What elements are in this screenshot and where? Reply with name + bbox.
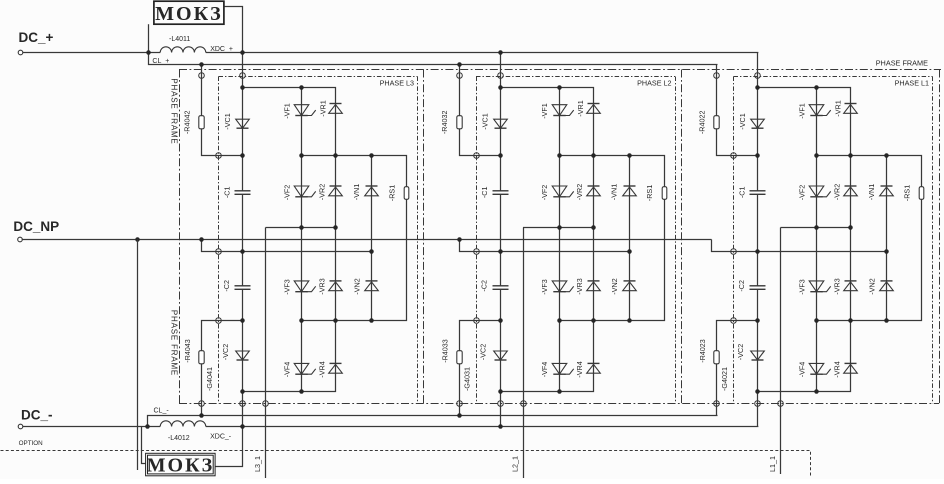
svg-text:-VC2: -VC2 [736, 344, 745, 360]
junction row392 VC2 L1 [755, 389, 760, 394]
resistor R4042 [199, 116, 204, 129]
frame crossing VC2 L3 [240, 401, 246, 407]
svg-text:-VF1: -VF1 [540, 103, 549, 119]
svg-text:PHASE FRAME: PHASE FRAME [876, 59, 928, 68]
junction row392 VF L1 [814, 389, 819, 394]
svg-text:-C2: -C2 [737, 280, 746, 292]
thyristor VF1 L1 [809, 105, 831, 116]
inductor L4012 [160, 421, 206, 442]
junction row88 VF L3 [299, 85, 304, 90]
terminal DC_- [18, 424, 23, 429]
diode VN2 L1 [880, 281, 894, 291]
junction XDC_- / VC2 L1 [756, 425, 758, 427]
junction row156 VN L1 [884, 153, 889, 158]
junction output VF L1 [814, 225, 819, 230]
svg-text:PHASE L3: PHASE L3 [380, 79, 414, 88]
wire VN column L2 [629, 156, 631, 321]
junction XDC_- / VC2 L2 [498, 424, 503, 429]
thyristor VF4 L1 [809, 363, 831, 374]
wire R-bottom column L3 [202, 321, 243, 416]
junction row156 VR L1 [848, 153, 853, 158]
frame crossing VC1 L2 [498, 73, 504, 79]
junction NP VN L2 [627, 249, 632, 254]
diode VC1 L1 [751, 119, 765, 128]
svg-text:-C2: -C2 [480, 280, 489, 292]
junction row320 C2 L3 [240, 318, 245, 323]
frame crossing VC2 L1 [755, 401, 761, 407]
junction NP VN L1 [884, 249, 889, 254]
wire VN column L1 [886, 156, 888, 321]
frame crossing row320 L1 [731, 318, 737, 324]
wire NP jog L2 [460, 240, 630, 252]
junction row320 VF L2 [557, 318, 562, 323]
diode VN2 L2 [623, 281, 637, 291]
junction row156 VN L3 [369, 153, 374, 158]
diode VN1 L1 [880, 186, 894, 196]
diode VC2 L1 [751, 351, 765, 360]
thyristor VF3 L1 [809, 281, 831, 292]
svg-text:-R4023: -R4023 [698, 339, 707, 363]
svg-text:-VC1: -VC1 [223, 113, 232, 129]
frame crossing R4023 [714, 401, 720, 407]
diode VR1 L3 [329, 104, 343, 114]
junction row156 VF L1 [814, 153, 819, 158]
svg-text:-VR3: -VR3 [575, 278, 584, 294]
frame crossing row156 L3 [216, 153, 222, 159]
svg-text:-VF1: -VF1 [798, 103, 807, 119]
svg-text:PHASE FRAME: PHASE FRAME [170, 310, 179, 376]
junction DC_- / CL_- [145, 424, 150, 429]
svg-text:-VC1: -VC1 [481, 113, 490, 129]
svg-text:-R4022: -R4022 [698, 111, 707, 135]
wire R-top column L2 [460, 65, 501, 156]
junction DC_NP jog L3 [199, 237, 204, 242]
wire output row L1 [781, 227, 851, 229]
svg-text:-VF2: -VF2 [798, 185, 807, 201]
thyristor VF3 L3 [294, 281, 316, 292]
junction NP C L1 [755, 249, 760, 254]
phase box L3 (G4041) [219, 77, 418, 404]
junction row156 C1 L3 [240, 153, 245, 158]
frame crossing output L3 [263, 401, 269, 407]
svg-text:-L4012: -L4012 [168, 435, 190, 442]
wire VF column L3 [301, 88, 303, 392]
junction row88 VF L2 [557, 85, 562, 90]
MOK3 box top [154, 1, 224, 25]
frame crossing NP L2 [474, 249, 480, 255]
junction CL_- / R4033 [457, 413, 462, 418]
wire output column L3_1 [265, 228, 267, 479]
capacitor C1 L2 [493, 191, 509, 195]
svg-text:-VC2: -VC2 [221, 344, 230, 360]
junction DC_+ / CL_+ / MOK3 [146, 50, 151, 55]
svg-text:-VF1: -VF1 [283, 103, 292, 119]
svg-text:-VN2: -VN2 [353, 278, 362, 294]
phase frame border [179, 70, 941, 404]
frame crossing NP L3 [216, 249, 222, 255]
diode VR3 L3 [329, 281, 343, 291]
junction XDC_- / VC2 L3 [240, 424, 245, 429]
diode VC2 L3 [236, 351, 250, 360]
wire DC_+ terminal to inductor [23, 52, 161, 54]
wire DC_- terminal to inductor [23, 426, 161, 428]
junction row392 VC2 L3 [240, 389, 245, 394]
thyristor VF1 L2 [552, 105, 574, 116]
junction XDC_+ / VC1 L3 [240, 50, 245, 55]
junction NP C L2 [498, 249, 503, 254]
wire VC column L1 [757, 53, 759, 427]
svg-text:-VR1: -VR1 [834, 100, 843, 116]
thyristor VF1 L3 [294, 105, 316, 116]
wire MOK3 bottom right lead [216, 427, 243, 467]
svg-text:-C2: -C2 [222, 280, 231, 292]
junction DC_NP jog L2 [457, 237, 462, 242]
junction row88 VC L1 [755, 85, 760, 90]
svg-text:-VF3: -VF3 [798, 279, 807, 295]
capacitor C2 L3 [235, 286, 251, 290]
wire DC_NP drop [137, 240, 139, 471]
svg-text:-VN2: -VN2 [610, 278, 619, 294]
wire R-top column L1 [717, 65, 758, 156]
junction output VR L3 [333, 225, 338, 230]
resistor R4032 [457, 116, 462, 129]
diode VR3 L2 [587, 281, 601, 291]
junction row156 VR L3 [333, 153, 338, 158]
frame crossing VC1 L3 [240, 73, 246, 79]
junction row320 VF L3 [299, 318, 304, 323]
resistor R4043 [199, 351, 204, 364]
MOK3 box bottom [146, 453, 216, 476]
frame crossing R4042 [199, 73, 205, 79]
capacitor C2 L1 [750, 286, 766, 290]
svg-text:МОКЗ: МОКЗ [147, 454, 215, 476]
junction row156 C1 L1 [755, 153, 760, 158]
resistor RS1 L3 [404, 187, 409, 200]
diode VC2 L2 [494, 351, 508, 360]
thyristor VF4 L2 [552, 363, 574, 374]
phase box L2 (G4031) [476, 77, 676, 404]
svg-text:PHASE FRAME: PHASE FRAME [170, 78, 179, 144]
junction row392 VF L3 [299, 389, 304, 394]
svg-text:-RS1: -RS1 [903, 185, 912, 201]
diode VR1 L2 [587, 104, 601, 114]
wire mid row upper L2 [560, 156, 665, 321]
junction row156 C1 L2 [498, 153, 503, 158]
junction CL_+ / R4032 [457, 62, 462, 67]
svg-text:-G4031: -G4031 [462, 367, 471, 391]
svg-text:-VF4: -VF4 [798, 362, 807, 378]
wire R-bottom column L2 [460, 321, 501, 416]
diode VR2 L3 [329, 186, 343, 196]
svg-text:L2_1: L2_1 [511, 456, 520, 472]
wire NP jog L3 [202, 240, 372, 252]
svg-text:-VN1: -VN1 [352, 184, 361, 200]
junction row156 VN L2 [627, 153, 632, 158]
frame crossing NP L1 [731, 249, 737, 255]
svg-text:-VR1: -VR1 [576, 100, 585, 116]
thyristor VF4 L3 [294, 363, 316, 374]
frame crossing row320 L3 [216, 318, 222, 324]
svg-text:-C1: -C1 [480, 187, 489, 199]
svg-text:-C1: -C1 [738, 187, 747, 199]
svg-text:-L4011: -L4011 [169, 36, 190, 43]
wire DC_NP rail [22, 239, 712, 241]
svg-text:CL_+: CL_+ [152, 58, 169, 65]
junction DC_NP drop [135, 237, 140, 242]
svg-text:DC_-: DC_- [21, 408, 53, 423]
diode VR2 L2 [587, 186, 601, 196]
svg-text:-G4021: -G4021 [720, 367, 729, 391]
junction row392 VF L2 [557, 389, 562, 394]
svg-text:-VF3: -VF3 [540, 279, 549, 295]
wire R-bottom column L1 [717, 321, 758, 416]
wire VF column L1 [816, 88, 818, 392]
junction NP VN L3 [369, 249, 374, 254]
thyristor VF3 L2 [552, 281, 574, 292]
wire VN column L3 [371, 156, 373, 321]
resistor R4022 [714, 116, 719, 129]
wire mid row upper L3 [302, 156, 407, 321]
junction row88 VC L2 [498, 85, 503, 90]
svg-text:-VF2: -VF2 [540, 185, 549, 201]
junction row320 VN L2 [627, 318, 632, 323]
frame crossing output L1 [778, 401, 784, 407]
junction row156 VF L3 [299, 153, 304, 158]
junction row320 VF L1 [814, 318, 819, 323]
wire VC column L3 [242, 53, 244, 427]
svg-text:-VC2: -VC2 [479, 344, 488, 360]
svg-text:OPTION: OPTION [19, 440, 44, 447]
junction CL_+ / R4042 [199, 62, 204, 67]
svg-text:CL_-: CL_- [154, 408, 170, 415]
junction output VF L3 [299, 225, 304, 230]
svg-text:-VR4: -VR4 [318, 361, 327, 377]
frame crossing R4022 [714, 73, 720, 79]
junction row320 C2 L1 [755, 318, 760, 323]
junction row156 VF L2 [557, 153, 562, 158]
phase frame divider L2/L1 [681, 70, 683, 404]
frame crossing row320 L2 [474, 318, 480, 324]
junction row156 VR L2 [591, 153, 596, 158]
svg-text:DC_+: DC_+ [19, 30, 54, 45]
svg-text:-VR4: -VR4 [833, 361, 842, 377]
wire output column L2_1 [523, 228, 525, 479]
resistor R4023 [714, 351, 719, 364]
thyristor VF2 L1 [809, 186, 831, 197]
terminal DC_NP [18, 237, 23, 242]
diode VR4 L2 [587, 363, 601, 373]
svg-text:-RS1: -RS1 [388, 185, 397, 201]
frame crossing VC2 L2 [498, 401, 504, 407]
diode VC1 L2 [494, 119, 508, 128]
resistor R4033 [457, 351, 462, 364]
wire XDC_+ rail [206, 52, 759, 54]
svg-text:PHASE L2: PHASE L2 [637, 79, 671, 88]
svg-text:-VN1: -VN1 [867, 184, 876, 200]
wire VF column L2 [559, 88, 561, 392]
capacitor C2 L2 [493, 286, 509, 290]
junction XDC_+ / VC1 L2 [498, 50, 503, 55]
svg-text:-VR2: -VR2 [318, 184, 327, 200]
wire CL_- rail [148, 416, 718, 427]
phase frame divider L3/L2 [423, 70, 425, 404]
svg-text:XDC_-: XDC_- [210, 434, 232, 441]
capacitor C1 L3 [235, 191, 251, 195]
svg-text:-VR2: -VR2 [833, 184, 842, 200]
wire NP jog L1 [712, 240, 887, 252]
junction row320 VR L1 [848, 318, 853, 323]
svg-text:МОКЗ: МОКЗ [155, 3, 223, 25]
frame crossing R4032 [457, 73, 463, 79]
svg-text:-R4032: -R4032 [440, 111, 449, 135]
frame crossing R4033 [457, 401, 463, 407]
wire MOK3 bottom left lead [142, 427, 146, 464]
svg-text:-R4043: -R4043 [183, 339, 192, 363]
frame crossing R4043 [199, 401, 205, 407]
junction row392 VC2 L2 [498, 389, 503, 394]
frame crossing row156 L1 [731, 153, 737, 159]
svg-text:-VR3: -VR3 [318, 278, 327, 294]
svg-text:L3_1: L3_1 [253, 456, 262, 472]
junction output VF L2 [557, 225, 562, 230]
diode VR4 L1 [844, 363, 858, 373]
svg-text:-VR2: -VR2 [575, 184, 584, 200]
diode VN1 L2 [623, 186, 637, 196]
inductor L4011 [160, 36, 206, 53]
svg-text:-VF3: -VF3 [283, 279, 292, 295]
svg-text:-VC1: -VC1 [738, 113, 747, 129]
wire R-top column L3 [202, 65, 243, 156]
junction row88 VC L3 [240, 85, 245, 90]
svg-text:-VN1: -VN1 [610, 184, 619, 200]
junction output VR L1 [848, 225, 853, 230]
wire top row L2 [501, 88, 594, 392]
wire XDC_- rail [206, 426, 759, 428]
diode VN1 L3 [365, 186, 379, 196]
wire output column L1_1 [780, 228, 782, 475]
frame crossing output L2 [521, 401, 527, 407]
capacitor C1 L1 [750, 191, 766, 195]
svg-text:-VF2: -VF2 [283, 185, 292, 201]
diode VN2 L3 [365, 281, 379, 291]
option boundary [1, 451, 811, 477]
wire VC column L2 [500, 53, 502, 427]
junction row320 VN L3 [369, 318, 374, 323]
svg-text:-R4033: -R4033 [441, 339, 450, 363]
diode VR1 L1 [844, 104, 858, 114]
svg-text:-VN2: -VN2 [868, 278, 877, 294]
wire MOK3 top right lead [225, 7, 243, 53]
svg-text:-G4041: -G4041 [205, 367, 214, 391]
wire output row L3 [266, 227, 336, 229]
junction output VR L2 [591, 225, 596, 230]
svg-text:-VR1: -VR1 [319, 100, 328, 116]
frame crossing VC1 L1 [755, 73, 761, 79]
wire CL_+ rail [149, 53, 718, 65]
junction row320 VN L1 [884, 318, 889, 323]
wire MOK3 top left lead [148, 24, 150, 52]
junction row320 VR L2 [591, 318, 596, 323]
svg-text:DC_NP: DC_NP [13, 219, 59, 234]
terminal DC_+ [18, 50, 23, 55]
frame crossing row156 L2 [474, 153, 480, 159]
diode VC1 L3 [236, 119, 250, 128]
wire top row L3 [243, 88, 336, 392]
resistor RS1 L2 [662, 187, 667, 200]
svg-text:-RS1: -RS1 [645, 185, 654, 201]
junction row320 VR L3 [333, 318, 338, 323]
diode VR2 L1 [844, 186, 858, 196]
phase box L1 (G4021) [734, 77, 933, 404]
diode VR3 L1 [844, 281, 858, 291]
junction NP C L3 [240, 249, 245, 254]
junction row320 C2 L2 [498, 318, 503, 323]
svg-text:-C1: -C1 [223, 187, 232, 199]
svg-text:-VF4: -VF4 [540, 362, 549, 378]
wire mid row upper L1 [817, 156, 922, 321]
resistor RS1 L1 [919, 187, 924, 200]
svg-text:-R4042: -R4042 [183, 111, 192, 135]
svg-text:PHASE L1: PHASE L1 [895, 79, 929, 88]
svg-text:L1_1: L1_1 [768, 456, 777, 472]
wire output row L2 [523, 227, 593, 229]
junction row88 VF L1 [814, 85, 819, 90]
wire top row L1 [758, 88, 851, 392]
svg-text:-VF4: -VF4 [283, 362, 292, 378]
svg-text:-VR4: -VR4 [575, 361, 584, 377]
thyristor VF2 L3 [294, 186, 316, 197]
junction CL_- / R4043 [199, 413, 204, 418]
thyristor VF2 L2 [552, 186, 574, 197]
svg-text:-VR3: -VR3 [833, 278, 842, 294]
diode VR4 L3 [329, 363, 343, 373]
